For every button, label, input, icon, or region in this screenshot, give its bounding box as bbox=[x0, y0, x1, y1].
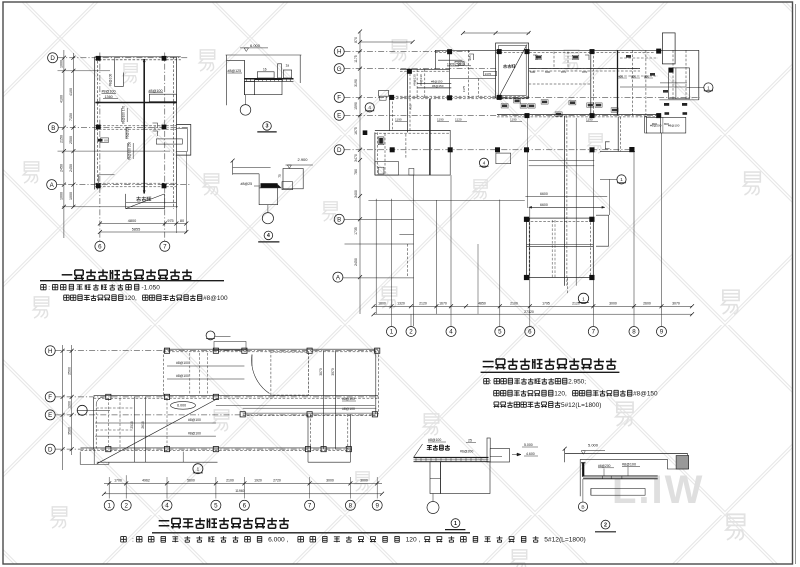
plan2 F-E left protrusion rects bbox=[379, 91, 389, 97]
plan2 wall axis D right part bbox=[600, 150, 635, 152]
svg-text:2120: 2120 bbox=[419, 302, 427, 306]
svg-text:600: 600 bbox=[545, 70, 550, 74]
plan1 small rect label XX bbox=[100, 138, 108, 142]
detail2 label circle 2 bbox=[601, 520, 610, 529]
plan3 open columns row F bbox=[106, 394, 111, 399]
plan2 beam label boxes band F-E bbox=[502, 105, 507, 108]
plan1 balcony slab band bbox=[156, 139, 182, 144]
svg-text:6.000 ,: 6.000 , bbox=[268, 537, 288, 544]
svg-text:1190: 1190 bbox=[437, 118, 444, 122]
plan3 axis4 dashed vertical in block bbox=[166, 399, 168, 452]
plan1 opening rect right bbox=[149, 94, 176, 101]
svg-text:D: D bbox=[337, 147, 342, 154]
plan2 axis line B bbox=[345, 218, 414, 220]
svg-text:#6@150: #6@150 bbox=[432, 84, 444, 88]
plan2 wall y99.9 bbox=[659, 99, 698, 101]
svg-text:120 ,: 120 , bbox=[406, 537, 421, 544]
plan1 stair area bbox=[126, 194, 165, 209]
svg-text:1735: 1735 bbox=[354, 227, 358, 235]
plan2 grid circle H bbox=[334, 46, 344, 56]
plan2 bottom dim line 1 bbox=[374, 305, 693, 307]
plan2 stair block bbox=[496, 43, 529, 98]
svg-text:16: 16 bbox=[263, 68, 267, 72]
detail2 leader circle B bbox=[582, 479, 584, 502]
detail1 inner line right rect bbox=[490, 456, 502, 458]
svg-text:8: 8 bbox=[349, 503, 353, 510]
plan2 axis line H bbox=[345, 50, 471, 52]
plan2 bracket 605 bbox=[605, 142, 609, 149]
svg-text:2100: 2100 bbox=[510, 302, 518, 306]
plan1 wall on axis B bbox=[95, 125, 177, 127]
plan3 wall axis F bbox=[94, 395, 379, 397]
svg-text:600: 600 bbox=[631, 74, 636, 78]
plan3 title bbox=[159, 521, 170, 526]
plan1 grid circle D bbox=[48, 53, 58, 63]
detail1 upturn bar bbox=[487, 438, 490, 462]
svg-text:1670: 1670 bbox=[439, 302, 447, 306]
svg-text:4962: 4962 bbox=[142, 479, 150, 483]
plan2 bottom grid circles bbox=[387, 327, 397, 337]
svg-text:8: 8 bbox=[632, 329, 636, 336]
svg-text:4850: 4850 bbox=[478, 302, 486, 306]
plan2 wall y87 and section marker 1 bbox=[620, 86, 686, 88]
watermark yi glyphs bbox=[199, 50, 214, 71]
plan2 bottom total dim bbox=[374, 313, 693, 315]
plan2 grid circle G bbox=[334, 64, 344, 74]
plan2 note line2 bbox=[494, 391, 499, 396]
svg-text:1795: 1795 bbox=[542, 302, 550, 306]
detail3 right vertical bbox=[299, 55, 301, 83]
svg-text:2720: 2720 bbox=[273, 479, 281, 483]
detail3 label circle 3 bbox=[263, 122, 272, 131]
plan1 axis line 7 bbox=[164, 53, 166, 242]
plan2 grid circle A bbox=[333, 272, 343, 282]
svg-text:1175: 1175 bbox=[354, 55, 358, 63]
svg-text:B: B bbox=[51, 125, 55, 132]
svg-text:6600: 6600 bbox=[540, 203, 548, 207]
svg-text:1: 1 bbox=[107, 503, 111, 510]
plan2 upper-right rooms bbox=[631, 50, 633, 117]
detail2 left vertical bbox=[579, 459, 581, 496]
plan2 vertical x609 bbox=[609, 179, 611, 215]
plan2 wall on axis G left bbox=[400, 68, 450, 70]
plan3 vertical strip bbox=[323, 350, 325, 449]
svg-text:#8@100: #8@100 bbox=[188, 431, 201, 435]
detail2 top line bbox=[565, 453, 688, 455]
svg-text:1700: 1700 bbox=[114, 479, 122, 483]
plan2 lower room columns bbox=[524, 217, 529, 222]
svg-text:7150: 7150 bbox=[69, 113, 73, 121]
svg-text:1800: 1800 bbox=[378, 302, 386, 306]
plan3 axis line H bbox=[56, 350, 381, 352]
svg-text:3190: 3190 bbox=[354, 79, 358, 87]
svg-text:2.950;: 2.950; bbox=[568, 378, 586, 385]
svg-text:#8@120: #8@120 bbox=[412, 74, 416, 86]
plan2 bracket near 645 bbox=[645, 116, 648, 133]
plan1 main beam horizontal bbox=[95, 102, 176, 104]
plan1 note line1 bbox=[41, 285, 46, 290]
plan3 upper block beams bbox=[167, 365, 244, 367]
svg-text:7: 7 bbox=[592, 329, 596, 336]
svg-text:870: 870 bbox=[561, 70, 566, 74]
plan2 wall x450 bbox=[449, 52, 451, 98]
svg-text:1190: 1190 bbox=[586, 118, 593, 122]
svg-text:2.900: 2.900 bbox=[298, 157, 309, 162]
plan2 upper-right square room bbox=[669, 68, 690, 99]
plan1 lower-left small rect bbox=[98, 175, 114, 187]
plan2 beam y60 and label 1305 bbox=[438, 59, 462, 61]
plan2 small brackets G band bbox=[533, 55, 589, 60]
plan2 wall on axis G middle bbox=[529, 68, 640, 70]
plan1 interior partition rect bbox=[115, 58, 124, 86]
plan2 columns row D bbox=[390, 147, 395, 152]
svg-text:6.000: 6.000 bbox=[250, 43, 261, 48]
svg-text:#8@100 250: #8@100 250 bbox=[128, 142, 132, 161]
svg-text:#8@25: #8@25 bbox=[241, 182, 253, 186]
plan2 upper-right label boxes bbox=[626, 55, 631, 58]
plan1 small bracket labels right bbox=[153, 123, 158, 136]
detail3 left vertical bbox=[226, 55, 228, 105]
plan2 lower room walls bbox=[527, 218, 594, 277]
plan2 dashed verticals G-F bbox=[416, 69, 418, 97]
plan2 wall on axis F bbox=[392, 95, 529, 97]
svg-text:6: 6 bbox=[243, 503, 247, 510]
plan3 top marker rect bbox=[214, 342, 246, 351]
plan3 open columns row H bbox=[164, 348, 169, 353]
detail3 top line bbox=[226, 54, 302, 56]
plan2 axis line E bbox=[345, 114, 661, 116]
svg-text:1: 1 bbox=[620, 177, 623, 182]
plan2 upper-right dashed horizontals bbox=[620, 57, 658, 59]
plan2 grid circle D bbox=[334, 145, 344, 155]
plan1 grid circle 6 bbox=[95, 241, 105, 251]
svg-text:800: 800 bbox=[644, 74, 649, 78]
plan3 upper block walls bbox=[164, 348, 379, 350]
plan2 leader below room bbox=[567, 278, 569, 294]
plan2 middle zone horizontals bbox=[529, 160, 595, 162]
detail3 beam rects above slab bbox=[257, 72, 274, 78]
svg-text:#8@100: #8@100 bbox=[668, 124, 680, 128]
svg-text:25: 25 bbox=[468, 439, 472, 443]
plan1 axis line D bbox=[58, 57, 188, 59]
plan2 upper-right extra dashed verticals bbox=[672, 50, 674, 100]
svg-text:3500: 3500 bbox=[67, 427, 71, 435]
plan2 left dimension chain bbox=[359, 31, 361, 314]
plan2 grid circle F bbox=[334, 92, 344, 102]
svg-text:4: 4 bbox=[267, 233, 270, 239]
plan3 axis line E bbox=[56, 414, 379, 416]
svg-text:3000: 3000 bbox=[609, 302, 617, 306]
plan3 title underline bbox=[152, 532, 470, 534]
svg-text:1000: 1000 bbox=[69, 192, 73, 200]
detail1 column below bbox=[430, 462, 441, 494]
svg-text:D: D bbox=[48, 446, 53, 453]
svg-text:4100: 4100 bbox=[60, 95, 64, 103]
plan2 columns row E bbox=[525, 113, 530, 118]
plan1 balcony right bbox=[176, 125, 190, 156]
plan2 upper-middle rooms bbox=[553, 52, 555, 69]
plan1 left dimension chain bbox=[63, 50, 65, 238]
svg-text:#8@100 170: #8@100 170 bbox=[122, 106, 126, 125]
svg-text:5#12(L=1800): 5#12(L=1800) bbox=[561, 402, 601, 409]
svg-text:4: 4 bbox=[368, 105, 371, 110]
svg-text::: : bbox=[132, 537, 134, 544]
plan3 left marker circle bbox=[77, 405, 87, 415]
plan1 bottom dimension line 1 bbox=[100, 223, 186, 225]
detail2 second line and step bbox=[580, 454, 688, 469]
detail4 hatched beam bbox=[261, 183, 278, 188]
svg-text:1370: 1370 bbox=[485, 72, 492, 76]
svg-text:1: 1 bbox=[390, 329, 394, 336]
plan2 upper-left room top bbox=[434, 50, 436, 69]
svg-text:400: 400 bbox=[618, 74, 623, 78]
plan1 title underline bbox=[40, 280, 224, 282]
plan2 top wall bbox=[435, 49, 699, 51]
plan2 beams y83 y88 bbox=[417, 82, 451, 84]
svg-text:4: 4 bbox=[483, 161, 486, 166]
svg-text:1305: 1305 bbox=[447, 62, 454, 66]
plan3 main block left wall bbox=[93, 397, 95, 449]
detail1 right rect bbox=[490, 449, 509, 463]
detail2 slab band bbox=[583, 476, 658, 478]
svg-text:7: 7 bbox=[308, 503, 312, 510]
svg-text:H: H bbox=[337, 49, 341, 56]
plan2 upper-right beam label boxes bbox=[664, 103, 669, 106]
detail1 leader circle bbox=[432, 494, 434, 502]
plan2 axis line F bbox=[345, 96, 701, 98]
plan3 left dimension chain bbox=[62, 345, 64, 470]
svg-text:1000: 1000 bbox=[60, 192, 64, 200]
detail1 slab lines bbox=[414, 457, 489, 459]
svg-text:5.000: 5.000 bbox=[524, 443, 533, 447]
svg-text:870: 870 bbox=[354, 37, 358, 43]
plan3 upper block inner verticals bbox=[189, 353, 191, 395]
detail3 column below bbox=[244, 82, 254, 95]
plan1 title bbox=[62, 274, 73, 276]
svg-text:2: 2 bbox=[604, 523, 607, 529]
svg-text:970: 970 bbox=[582, 70, 587, 74]
plan2 axis line G bbox=[345, 68, 497, 70]
svg-text:2518: 2518 bbox=[130, 421, 134, 429]
plan2 upper-left wall vertical x408 bbox=[407, 69, 409, 132]
detail4 label circle 4 bbox=[264, 231, 273, 240]
svg-text:1: 1 bbox=[454, 521, 457, 527]
plan3 wall axis D bbox=[81, 447, 351, 449]
svg-text:780: 780 bbox=[354, 169, 358, 175]
svg-text:1200: 1200 bbox=[67, 401, 71, 409]
svg-text:#8@100: #8@100 bbox=[622, 463, 636, 467]
plan3 upper rooms right bbox=[271, 352, 308, 395]
plan2 marker 4 middle bbox=[479, 158, 488, 167]
plan2 right wall bbox=[698, 50, 700, 100]
svg-text:2450: 2450 bbox=[60, 164, 64, 172]
svg-text:F: F bbox=[48, 394, 52, 401]
svg-text:5: 5 bbox=[214, 503, 218, 510]
svg-text:905: 905 bbox=[468, 55, 472, 60]
plan2 courtyard verticals bbox=[375, 199, 377, 314]
plan1 columns bbox=[96, 56, 101, 61]
svg-text:1: 1 bbox=[707, 85, 710, 90]
plan2 mid thick vertical beam bbox=[429, 99, 431, 175]
plan3 beams right of F bbox=[216, 405, 375, 407]
svg-text:9: 9 bbox=[375, 503, 379, 510]
svg-text:75: 75 bbox=[278, 174, 282, 178]
svg-text:2450: 2450 bbox=[69, 164, 73, 172]
svg-text:D: D bbox=[50, 55, 55, 62]
svg-text:3000: 3000 bbox=[360, 479, 368, 483]
svg-text:2500: 2500 bbox=[67, 367, 71, 375]
svg-text:2500: 2500 bbox=[69, 136, 73, 144]
detail2 lower rect bbox=[591, 489, 645, 496]
svg-text:#8@130: #8@130 bbox=[419, 74, 423, 86]
plan2 lower-left protrusion bbox=[375, 162, 399, 176]
plan2 note line1 bbox=[484, 379, 489, 384]
svg-text:5600: 5600 bbox=[187, 479, 195, 483]
plan1 main beam vertical KL bbox=[143, 59, 145, 194]
detail2 right dark block bbox=[676, 456, 689, 470]
svg-text:5#12(L=1800): 5#12(L=1800) bbox=[544, 537, 586, 544]
svg-text:4100: 4100 bbox=[69, 88, 73, 96]
svg-text:2618: 2618 bbox=[141, 421, 145, 429]
plan2 vertical x450 lower bbox=[449, 130, 451, 175]
plan2 title underline bbox=[481, 371, 620, 373]
svg-text:4.600: 4.600 bbox=[526, 452, 535, 456]
plan3 beams main block bbox=[95, 422, 216, 424]
plan1 right wall bbox=[173, 57, 175, 209]
plan2 stair block columns bbox=[497, 49, 502, 54]
svg-text:5: 5 bbox=[498, 329, 502, 336]
svg-text:#8@100: #8@100 bbox=[428, 438, 441, 442]
svg-text:4800: 4800 bbox=[128, 219, 136, 223]
svg-text:4: 4 bbox=[449, 329, 453, 336]
svg-text:1190: 1190 bbox=[510, 118, 517, 122]
svg-text:#8@100: #8@100 bbox=[149, 89, 163, 93]
svg-text:#8@100: #8@100 bbox=[176, 374, 189, 378]
plan3 top marker circle bbox=[206, 331, 215, 340]
svg-text:3400: 3400 bbox=[354, 190, 358, 198]
plan3 bottom total dim bbox=[104, 493, 382, 495]
detail4 left lines bbox=[233, 161, 271, 188]
svg-text:#8@125: #8@125 bbox=[228, 69, 242, 73]
plan2 thick wall x617 bbox=[617, 50, 619, 115]
svg-text:1190: 1190 bbox=[395, 118, 402, 122]
svg-text:B: B bbox=[581, 505, 584, 511]
svg-text:E: E bbox=[337, 113, 341, 120]
svg-text:-1.050: -1.050 bbox=[142, 284, 161, 291]
plan3 ellipse level 6.000 bbox=[171, 402, 196, 410]
plan2 note line3 bbox=[494, 402, 500, 408]
plan3 bottom skirt bbox=[97, 461, 218, 463]
svg-text:11960: 11960 bbox=[235, 489, 245, 493]
plan3 marker below bbox=[193, 464, 203, 474]
svg-text:1a: 1a bbox=[286, 64, 290, 68]
svg-text:6600: 6600 bbox=[540, 192, 548, 196]
svg-text:1: 1 bbox=[582, 296, 585, 302]
plan2 wall x576 long bbox=[575, 118, 577, 286]
plan3 wall axis E dashes right bbox=[243, 412, 379, 414]
svg-text:H: H bbox=[48, 348, 52, 355]
plan3 open columns row D bbox=[106, 447, 111, 452]
svg-text:5.000: 5.000 bbox=[588, 442, 599, 447]
svg-text:6: 6 bbox=[528, 329, 532, 336]
plan2 room below E right bbox=[646, 117, 685, 133]
plan2 top protrusion rect bbox=[662, 33, 675, 64]
plan1 axis line B bbox=[59, 127, 188, 129]
detail3 leader and circle bbox=[245, 95, 247, 105]
plan2 title bbox=[483, 362, 494, 367]
detail3 bracket bbox=[227, 60, 245, 94]
plan2 stub B-A bbox=[407, 244, 409, 277]
svg-text:#8@100: #8@100 bbox=[102, 90, 116, 94]
plan3 left foot bbox=[93, 449, 95, 464]
plan1 grid circle B bbox=[48, 123, 58, 133]
svg-text:1360: 1360 bbox=[105, 95, 113, 99]
plan3 bottom grid circles bbox=[104, 500, 114, 510]
detail2 rebar bar bbox=[582, 462, 584, 477]
svg-text:120,: 120, bbox=[554, 390, 567, 397]
plan1 axis line A bbox=[57, 184, 190, 186]
plan2 lower room inner dashed verticals bbox=[551, 220, 553, 278]
plan1 grid circle A bbox=[47, 180, 57, 190]
plan1 dim extension lines bbox=[175, 209, 177, 233]
plan2 courtyard top edge bbox=[368, 200, 524, 202]
detail3 slab bbox=[244, 78, 293, 80]
svg-text:B: B bbox=[337, 217, 341, 224]
plan3 big diagonal bbox=[97, 399, 218, 464]
plan2 columns upper-left bbox=[447, 49, 452, 54]
plan1 secondary lines bbox=[58, 70, 111, 72]
plan2 notch bracket right bbox=[596, 215, 609, 246]
plan2 lower-left block bbox=[375, 130, 450, 132]
plan2 marker 4 left bbox=[365, 103, 374, 112]
plan1 wall on axis A bbox=[95, 182, 177, 184]
svg-text:2600: 2600 bbox=[643, 302, 651, 306]
svg-text:7: 7 bbox=[163, 244, 167, 251]
plan2 axis line D bbox=[345, 149, 636, 151]
svg-text:2: 2 bbox=[409, 329, 413, 336]
svg-text:80: 80 bbox=[180, 219, 184, 223]
plan3 grid circle F bbox=[45, 392, 55, 402]
svg-text:3070: 3070 bbox=[672, 302, 680, 306]
detail4 leader circle bbox=[267, 205, 269, 213]
plan2 axis line A bbox=[343, 277, 414, 279]
svg-text:2120: 2120 bbox=[572, 302, 580, 306]
plan3 grid circle H bbox=[45, 346, 55, 356]
svg-text:F: F bbox=[337, 95, 341, 102]
plan3 grid circle E bbox=[45, 410, 55, 420]
svg-text:2150: 2150 bbox=[60, 135, 64, 143]
svg-text:4: 4 bbox=[165, 503, 169, 510]
plan2 top dim line bbox=[360, 41, 413, 43]
svg-text::: : bbox=[490, 378, 492, 385]
plan1 left wall bbox=[94, 57, 96, 190]
plan3 left room dashed horizontals bbox=[96, 407, 134, 409]
svg-text:3470: 3470 bbox=[354, 154, 358, 162]
svg-text:2450: 2450 bbox=[354, 258, 358, 266]
plan1 top wall bbox=[95, 56, 181, 58]
svg-text:1175: 1175 bbox=[462, 85, 466, 92]
svg-text:400: 400 bbox=[456, 62, 461, 66]
svg-text:1920: 1920 bbox=[254, 479, 262, 483]
svg-text:G: G bbox=[337, 66, 342, 73]
svg-text:#8@100: #8@100 bbox=[203, 295, 228, 302]
svg-text:1120: 1120 bbox=[455, 118, 462, 122]
plan2 grid circle E bbox=[334, 110, 344, 120]
svg-text:#8@150: #8@150 bbox=[431, 79, 443, 83]
svg-text:6: 6 bbox=[98, 244, 102, 251]
plan2 wall on axis E bbox=[497, 113, 660, 115]
svg-text:9: 9 bbox=[660, 329, 664, 336]
